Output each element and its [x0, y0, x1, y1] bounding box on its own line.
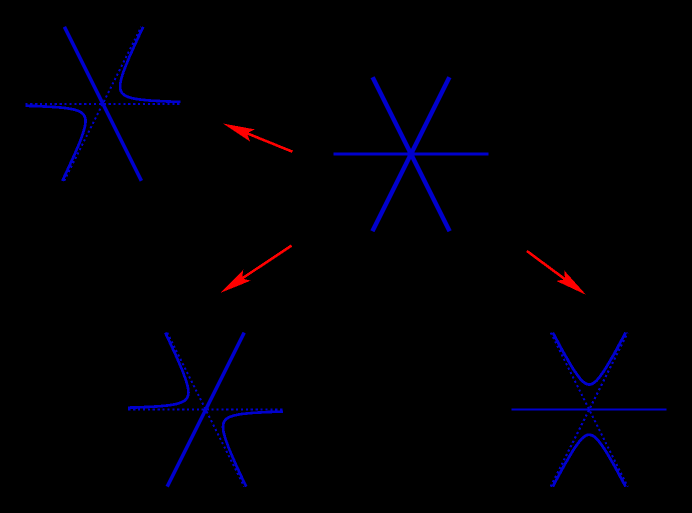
- top-left figure: dotted asymptote y=2x: [64, 27, 141, 181]
- bottom-right figure: hyperbola branch upper: [553, 333, 626, 385]
- top-left figure: solid line y=-2x: [64, 27, 141, 181]
- arrow to bottom-left figure: [242, 246, 292, 279]
- bottom-left figure: hyperbola branch lower-right: [223, 412, 283, 487]
- arrow to bottom-right figure: [527, 251, 565, 279]
- bottom-right figure: dotted asymptote y=2x: [551, 333, 628, 487]
- bottom-left figure: hyperbola branch upper-left: [128, 333, 188, 408]
- top-left figure: hyperbola branch upper-right: [120, 27, 180, 102]
- bottom-right figure: hyperbola branch lower: [553, 435, 626, 487]
- central star: horizontal line: [334, 153, 489, 156]
- top-left figure: hyperbola branch lower-left: [25, 106, 85, 181]
- central star: line y=2x: [373, 77, 450, 231]
- top-left figure: dotted horizontal asymptote: [25, 103, 180, 105]
- arrow to top-left figure: [247, 133, 292, 151]
- central star: line y=-2x: [373, 77, 450, 231]
- bottom-left figure: dotted horizontal asymptote: [128, 409, 283, 411]
- bottom-right figure: solid horizontal line: [512, 409, 667, 411]
- bottom-left figure: solid line y=2x: [167, 333, 244, 487]
- bottom-left figure: dotted asymptote y=-2x: [167, 333, 244, 487]
- bottom-right figure: dotted asymptote y=-2x: [551, 333, 628, 487]
